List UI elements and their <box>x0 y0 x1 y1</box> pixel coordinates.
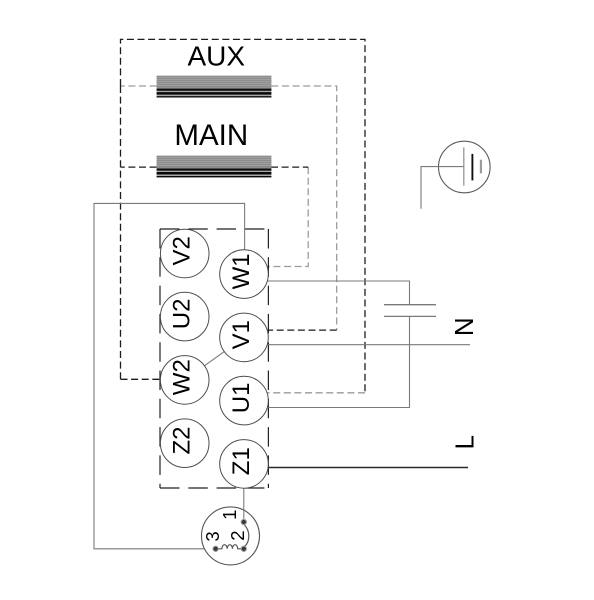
wire: black dashed entry into terminal W2 <box>121 378 185 380</box>
switch pin 3 dot <box>213 546 218 551</box>
switch contact arc pin1 to pin2 <box>244 525 249 547</box>
switch pin 2 dot <box>241 546 246 551</box>
earth terminal circle <box>439 141 491 193</box>
wire: gray dashed MAIN right continuation into terminal W1 <box>244 167 308 266</box>
earth bar middle <box>471 154 473 181</box>
svg-text:Z1: Z1 <box>228 447 255 475</box>
terminal V2 <box>160 229 209 278</box>
svg-text:W2: W2 <box>169 359 196 395</box>
earth bar long <box>463 147 465 185</box>
svg-text:U1: U1 <box>228 383 255 414</box>
wire: gray dashed AUX right lead down to V1 entry corner <box>271 86 336 330</box>
wire: solid W1 to capacitor top <box>244 281 410 305</box>
switch pin 1 dot <box>241 519 246 524</box>
wire: gray dashed AUX left lead to node at x=120.5 <box>121 85 157 87</box>
terminal W1 <box>220 250 269 299</box>
wire: black dashed entry into terminal V1 <box>244 329 337 331</box>
terminal V1 <box>220 313 269 362</box>
terminal Z2 <box>160 419 209 468</box>
wire: gray dashed entry into terminal U1 <box>244 392 365 394</box>
switch coil between pin3 and pin2 <box>216 545 244 549</box>
wire: link W2 to V1 diagonal <box>185 337 244 380</box>
centrifugal switch body <box>202 507 260 565</box>
wire: black dashed MAIN left lead <box>121 166 157 168</box>
wire: solid capacitor bottom to U1 <box>244 316 410 407</box>
winding AUX (striped bar) <box>157 76 272 98</box>
wire: black dashed left vertical bus <box>120 86 122 379</box>
svg-text:V2: V2 <box>169 236 196 265</box>
svg-text:1: 1 <box>219 510 240 520</box>
svg-text:L: L <box>449 435 479 449</box>
wire: solid L line from Z1 <box>244 467 468 469</box>
svg-text:N: N <box>449 317 479 336</box>
svg-text:Z2: Z2 <box>169 426 196 454</box>
svg-text:MAIN: MAIN <box>174 119 248 152</box>
wire: black dashed outer loop top and right side <box>121 39 366 392</box>
svg-text:3: 3 <box>202 531 223 541</box>
earth bar short <box>480 160 482 174</box>
wire: solid Z1 wire segment reaching pin1 inside switch <box>243 510 245 522</box>
earth lead wire <box>421 167 464 209</box>
terminal W2 <box>160 356 209 405</box>
terminal U1 <box>220 376 269 425</box>
capacitor plates <box>384 305 436 317</box>
wire: solid from switch pin3 left, up, and over into W1 top <box>94 203 245 548</box>
svg-text:U2: U2 <box>169 299 196 330</box>
terminal block dashed outline <box>160 228 268 230</box>
terminal U2 <box>160 292 209 341</box>
svg-text:V1: V1 <box>228 320 255 349</box>
wire: solid Z1 down to switch pin1 <box>243 464 245 523</box>
wire: solid N line from V1 <box>244 344 470 346</box>
svg-text:2: 2 <box>227 530 248 540</box>
svg-text:AUX: AUX <box>188 41 246 72</box>
wire: black dashed MAIN right lead <box>271 166 308 168</box>
winding MAIN (striped bar) <box>157 156 272 178</box>
svg-text:W1: W1 <box>228 253 255 289</box>
terminal Z1 <box>220 440 269 489</box>
